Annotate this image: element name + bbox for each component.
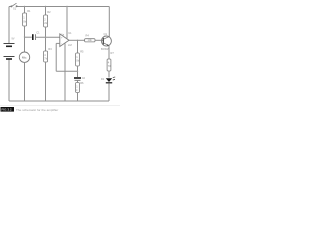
wire R6 to bottom rail	[77, 93, 79, 102]
wire C2 to R6	[77, 81, 79, 83]
wire inverting input lead	[56, 42, 60, 44]
node top rail junction V+	[66, 6, 67, 7]
LED D1	[101, 77, 115, 83]
svg-text:C1: C1	[36, 30, 40, 34]
wire mic column upper	[24, 7, 26, 14]
wire emitter down to R7	[108, 46, 110, 59]
svg-text:R3: R3	[48, 47, 52, 51]
wire mic node to C1	[25, 36, 32, 38]
wire R2 stub	[45, 7, 47, 16]
capacitor C2	[74, 76, 86, 80]
switch S1	[11, 3, 17, 7]
svg-text:S1: S1	[13, 7, 17, 11]
wire R5 to feedback node	[77, 66, 79, 77]
op-amp U1	[60, 31, 72, 47]
resistor R1	[23, 9, 31, 26]
wire R3 to bottom rail	[45, 62, 47, 101]
resistor R3	[44, 47, 53, 62]
resistor R2	[44, 10, 52, 27]
wire op-amp V+ pin	[66, 7, 68, 39]
svg-text:R1: R1	[27, 9, 31, 13]
svg-text:D1: D1	[101, 77, 105, 81]
svg-text:10k: 10k	[88, 38, 93, 42]
wire R7 to LED	[108, 71, 110, 78]
node top rail junction R2	[45, 6, 46, 7]
svg-text:The schematic for the amplifie: The schematic for the amplifier	[16, 108, 58, 112]
battery B1	[4, 38, 15, 60]
wire mic to bottom rail	[24, 62, 26, 101]
svg-text:LM: LM	[68, 43, 72, 47]
svg-text:R4: R4	[86, 33, 90, 37]
transistor Q1	[101, 32, 111, 51]
resistor R6	[76, 81, 84, 92]
node output junction	[77, 40, 78, 41]
svg-text:BC548: BC548	[101, 47, 109, 51]
svg-text:Q1: Q1	[104, 32, 108, 36]
wire output node down to R5	[77, 40, 79, 53]
svg-text:Mic: Mic	[22, 55, 27, 59]
wire R4 to base	[95, 39, 103, 41]
svg-text:C2: C2	[82, 76, 86, 80]
resistor R7	[107, 51, 114, 71]
caption label box	[1, 107, 15, 112]
resistor R4	[85, 33, 95, 42]
svg-text:R5: R5	[80, 50, 84, 54]
wire bottom rail	[9, 100, 109, 102]
wire op-amp V- pin to bottom rail	[64, 43, 66, 101]
svg-text:FIG 3.2: FIG 3.2	[2, 108, 12, 112]
microphone MIC1	[19, 52, 29, 62]
resistor R5	[76, 50, 84, 66]
wire feedback horizontal	[56, 70, 77, 72]
wire feedback vertical	[55, 43, 57, 71]
wire op-amp output	[69, 39, 85, 41]
svg-text:R6: R6	[80, 81, 84, 85]
node top rail junction R1	[24, 6, 25, 7]
wire LED to bottom rail	[108, 83, 110, 101]
wire right vertical collector	[108, 7, 110, 37]
node feedback junction	[77, 71, 78, 72]
node mic/C1 junction	[24, 36, 25, 37]
svg-text:-: -	[61, 42, 62, 45]
wire left vertical to battery	[8, 7, 10, 44]
capacitor C1	[33, 30, 40, 40]
node divider junction	[45, 36, 46, 37]
svg-text:U1: U1	[68, 31, 72, 35]
svg-text:9V: 9V	[12, 38, 15, 41]
wire R1 to mic node	[24, 26, 26, 52]
wire R2 to node to R3	[45, 27, 47, 51]
wire C1 to divider node	[36, 36, 60, 38]
svg-text:R7: R7	[111, 51, 115, 55]
caption rule	[0, 105, 120, 107]
svg-text:R2: R2	[47, 10, 51, 14]
wire battery to bottom rail	[8, 59, 10, 101]
wire top rail	[9, 7, 109, 102]
svg-text:1a: 1a	[61, 32, 64, 36]
